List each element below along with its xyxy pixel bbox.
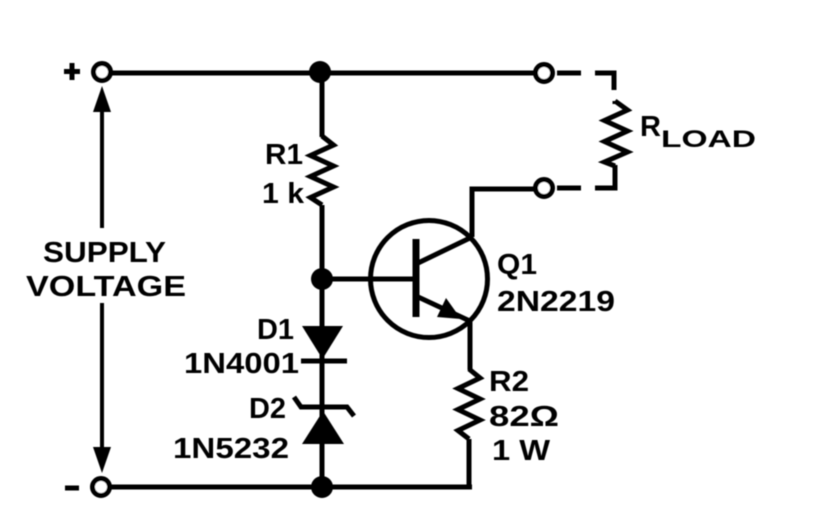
transistor Q1 emitter arrowhead	[437, 298, 461, 319]
wire: R2 bottom lead to bottom rail	[467, 439, 472, 489]
svg-text:R: R	[640, 111, 661, 143]
supply voltage arrow: lower shaft	[100, 303, 104, 448]
wire: top rail from + terminal to load terminal	[110, 71, 535, 76]
zener D2 triangle	[302, 411, 344, 444]
node: junction dot on bottom rail	[311, 476, 333, 498]
zener D2 bar with bent ends	[294, 397, 354, 416]
svg-text:2N2219: 2N2219	[497, 286, 615, 318]
svg-text:1 W: 1 W	[492, 435, 551, 467]
node: junction dot on top rail	[309, 61, 331, 83]
supply voltage arrow: down arrowhead	[93, 447, 111, 473]
svg-text:D2: D2	[249, 393, 286, 425]
terminal: load top open circle	[536, 65, 553, 82]
supply voltage arrow: upper shaft	[100, 106, 104, 228]
svg-text:1N5232: 1N5232	[173, 433, 289, 465]
svg-text:LOAD: LOAD	[661, 126, 756, 153]
wire: collector lead up to load terminal wire	[472, 189, 534, 237]
transistor Q1 base bar	[413, 239, 420, 317]
supply voltage arrow: up arrowhead	[93, 86, 111, 112]
resistor R LOAD upper lead	[613, 101, 618, 104]
svg-text:D1: D1	[257, 314, 294, 346]
node: junction dot at Q1 base / zener branch	[311, 268, 333, 290]
transistor Q1 emitter diagonal	[416, 296, 472, 322]
resistor R1 zigzag body	[311, 136, 334, 205]
svg-text:SUPPLY: SUPPLY	[43, 237, 166, 269]
wire: load branch bottom dash	[557, 186, 581, 191]
diode D1 triangle	[302, 326, 343, 359]
diode D1 cathode bar	[301, 359, 347, 364]
transistor Q1 collector diagonal	[416, 237, 472, 264]
svg-text:R2: R2	[489, 366, 529, 398]
wire: bottom rail from - terminal to R2 bottom	[110, 485, 472, 490]
svg-text:1N4001: 1N4001	[184, 348, 299, 380]
wire: load branch top dashes	[557, 71, 581, 76]
svg-text:82Ω: 82Ω	[489, 401, 559, 433]
wire: from R1 bottom through D1/D2 to bottom rail	[320, 205, 325, 487]
terminal: + supply open circle	[94, 64, 111, 81]
svg-text:1 k: 1 k	[262, 178, 305, 210]
resistor R LOAD zigzag body	[605, 101, 628, 166]
svg-text:R1: R1	[265, 139, 303, 171]
svg-text:VOLTAGE: VOLTAGE	[26, 271, 186, 303]
terminal: - supply open circle	[93, 479, 110, 496]
wire: emitter lead down to R2	[468, 322, 473, 370]
wire: base wire from node to Q1 base bar	[322, 277, 414, 282]
terminal: load bottom open circle	[536, 180, 553, 197]
wire: load branch bottom corner	[595, 165, 615, 188]
wire: R1 / D1 / D2 vertical branch upper lead	[320, 73, 325, 137]
resistor R2 zigzag body	[458, 369, 480, 439]
transistor Q1 circle	[371, 221, 488, 338]
svg-text:Q1: Q1	[497, 249, 537, 281]
minus sign at - terminal	[65, 486, 79, 491]
plus sign at + terminal	[64, 63, 80, 80]
